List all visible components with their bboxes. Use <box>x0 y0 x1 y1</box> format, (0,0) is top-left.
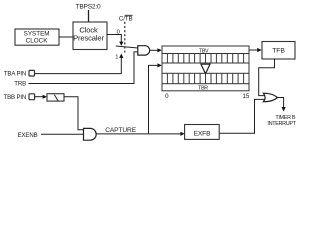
svg-text:15: 15 <box>242 93 249 100</box>
register TBV bit cells <box>162 54 249 64</box>
pin box TBA <box>29 70 35 76</box>
svg-text:TFB: TFB <box>272 48 285 55</box>
wire TFB to interrupt OR <box>259 59 275 96</box>
register TBV row <box>162 46 249 54</box>
svg-text:TBR: TBR <box>198 85 208 91</box>
wire TBPS2:0 to prescaler <box>88 10 90 22</box>
svg-text:TIMER B: TIMER B <box>275 115 296 121</box>
block SYSTEM CLOCK <box>15 29 59 45</box>
wire TBV overflow to TFB <box>249 49 257 51</box>
wire TBB pin to edge detector <box>35 96 43 98</box>
transfer box <box>162 63 249 73</box>
arrow into TBV <box>157 48 161 52</box>
arrow into transfer box <box>157 63 161 67</box>
svg-text:CLOCK: CLOCK <box>26 38 48 45</box>
block EXFB <box>185 125 220 140</box>
wire C/TB dashed select line <box>124 22 126 53</box>
arrow into TFB <box>257 48 262 52</box>
node C/TB label with overline <box>119 15 133 22</box>
svg-text:CAPTURE: CAPTURE <box>105 127 137 134</box>
svg-text:C/TB: C/TB <box>119 16 133 23</box>
wire capture riser to transfer box <box>149 65 158 133</box>
wire capture to EXFB <box>96 133 181 135</box>
node TIMER B INTERRUPT label <box>267 115 296 127</box>
svg-text:TRB: TRB <box>14 81 26 88</box>
wire edge detector to capture gate <box>64 97 84 130</box>
svg-text:EXENB: EXENB <box>18 132 38 139</box>
wire EXENB to capture gate <box>41 133 84 135</box>
svg-text:1: 1 <box>115 54 118 60</box>
svg-text:TBPS2:0: TBPS2:0 <box>76 3 102 10</box>
arrow into EXFB <box>180 132 184 136</box>
wire system clock to prescaler <box>59 36 73 38</box>
svg-text:SYSTEM: SYSTEM <box>24 31 50 38</box>
wire gate output to TBV <box>150 49 158 51</box>
svg-text:INTERRUPT: INTERRUPT <box>267 121 296 127</box>
svg-text:TBB PIN: TBB PIN <box>4 94 27 101</box>
edge detector slope <box>54 95 58 101</box>
svg-text:0: 0 <box>117 30 120 36</box>
register TBR bit cells <box>162 73 249 83</box>
block Clock Prescaler <box>73 22 107 50</box>
switch arm <box>116 46 138 48</box>
transfer triangle <box>201 64 210 74</box>
svg-text:0: 0 <box>165 93 169 100</box>
svg-text:TBA PIN: TBA PIN <box>4 71 26 78</box>
and-gate U1 count enable <box>138 46 150 55</box>
svg-text:Prescaler: Prescaler <box>73 34 104 43</box>
arrow down at switch contact 0 <box>119 42 123 46</box>
arrow up at switch contact 1 <box>119 54 123 58</box>
register TBR row <box>162 84 249 91</box>
wire prescaler output to switch contact 0 <box>107 35 121 43</box>
wire TBA pin to switch contact 1 <box>35 58 122 74</box>
arrow into edge detector <box>43 95 47 99</box>
edge detector box <box>47 94 64 101</box>
and-gate U2 capture <box>84 128 97 140</box>
register stack TBV/TBR <box>162 46 250 100</box>
or-gate U3 interrupt <box>263 93 277 102</box>
wire OR output to interrupt arrow <box>277 98 283 108</box>
arrow timer b interrupt <box>282 107 286 112</box>
wire TRB to count gate <box>29 52 138 84</box>
pin box TBB <box>29 94 35 100</box>
wire EXFB to interrupt OR <box>219 99 265 133</box>
svg-text:EXFB: EXFB <box>194 130 212 137</box>
block TFB <box>262 42 295 60</box>
svg-text:TBV: TBV <box>199 49 209 55</box>
